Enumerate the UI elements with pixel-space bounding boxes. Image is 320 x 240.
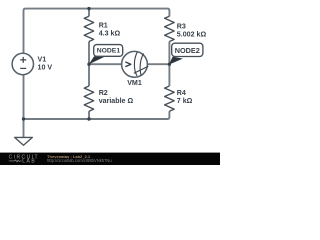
- junction node B: [168, 62, 171, 65]
- wire node A to VM1 left: [89, 63, 122, 65]
- wire R1 top lead: [88, 9, 90, 17]
- svg-text:7 kΩ: 7 kΩ: [177, 97, 193, 105]
- svg-text:VM1: VM1: [127, 79, 142, 87]
- junction top R1: [87, 7, 90, 10]
- svg-text:10 V: 10 V: [38, 64, 53, 72]
- banner: [0, 153, 220, 165]
- wire node B to R4 top: [168, 64, 170, 86]
- resistor R4: [165, 86, 175, 111]
- resistor R3: [165, 16, 175, 41]
- junction R2 bottom: [87, 117, 90, 120]
- wire VM1 right to node B: [147, 63, 169, 65]
- junction node A: [87, 62, 90, 65]
- node NODE1 flag: [89, 45, 123, 65]
- svg-text:5.002 kΩ: 5.002 kΩ: [177, 31, 207, 39]
- wire R3 bottom to node B: [168, 42, 170, 65]
- svg-text:variable Ω: variable Ω: [99, 97, 134, 105]
- node NODE2 flag: [169, 43, 203, 64]
- voltage source V1: [12, 53, 33, 74]
- svg-text:R2: R2: [99, 89, 108, 97]
- wire R2 bottom lead: [88, 111, 90, 119]
- resistor R1: [84, 16, 94, 41]
- logo LAB: [9, 159, 36, 165]
- wire bottom rail: [24, 111, 170, 119]
- resistor R2: [84, 86, 94, 111]
- svg-text:R4: R4: [177, 89, 186, 97]
- wire top rail: [24, 9, 170, 53]
- svg-text:4.3 kΩ: 4.3 kΩ: [99, 30, 121, 38]
- wire R1 bottom to node A: [88, 42, 90, 65]
- svg-text:V1: V1: [38, 56, 47, 64]
- voltmeter VM1: [122, 51, 149, 77]
- svg-text:NODE2: NODE2: [175, 46, 200, 55]
- svg-text:R1: R1: [99, 22, 108, 30]
- wire V1 bottom to ground node: [23, 75, 25, 137]
- svg-text:http://circuitlab.com/c/88bVNk: http://circuitlab.com/c/88bVNk57Nu: [47, 158, 112, 163]
- svg-text:LAB: LAB: [22, 159, 36, 165]
- wire node A to R2 top: [88, 64, 90, 86]
- junction ground node: [22, 117, 25, 120]
- ground: [15, 137, 33, 145]
- svg-text:R3: R3: [177, 22, 186, 30]
- svg-text:NODE1: NODE1: [97, 48, 121, 55]
